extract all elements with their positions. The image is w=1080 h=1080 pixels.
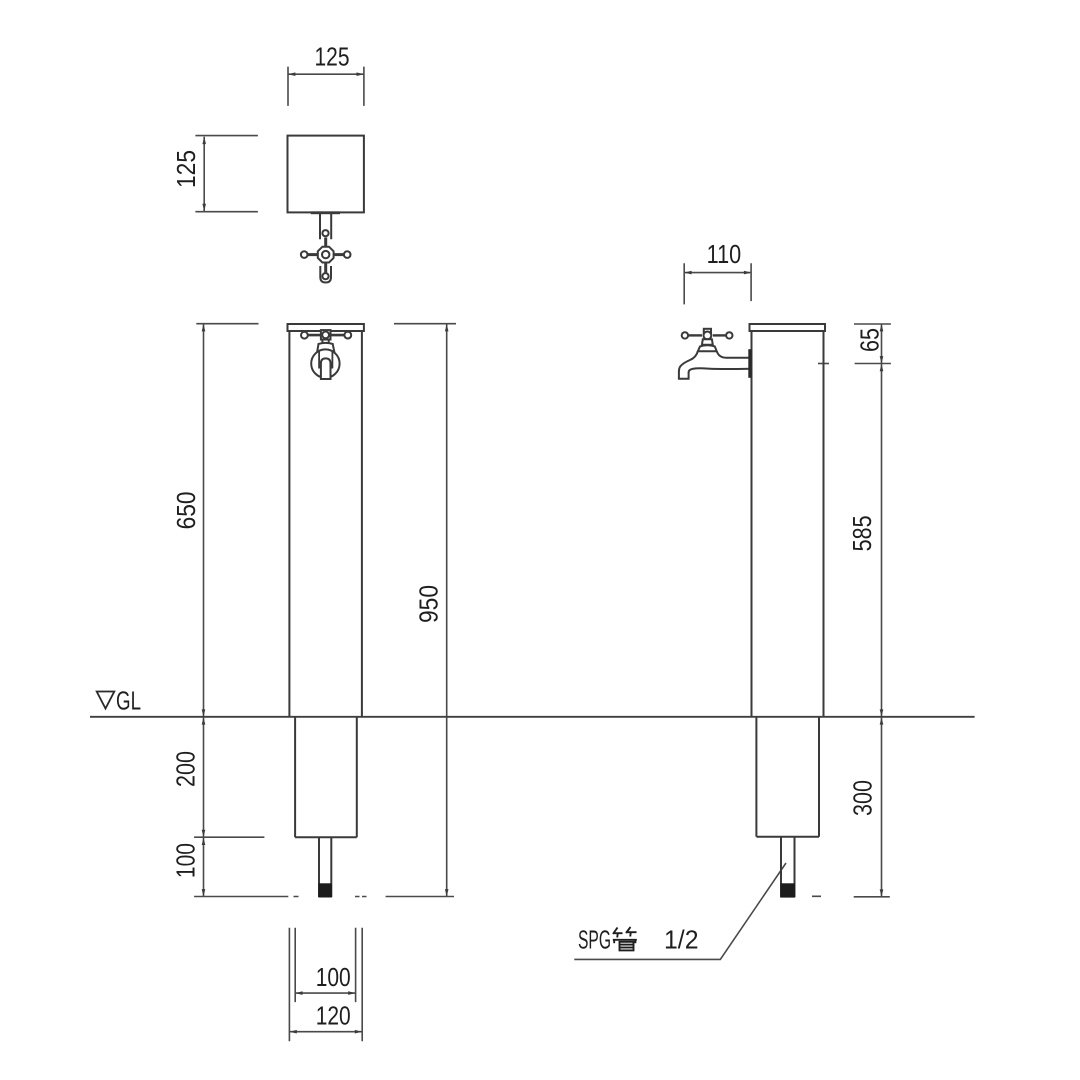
svg-text:950: 950 <box>414 585 444 623</box>
svg-text:GL: GL <box>116 686 141 716</box>
svg-text:65: 65 <box>855 328 885 352</box>
svg-text:110: 110 <box>707 239 742 269</box>
svg-text:1/2: 1/2 <box>664 925 699 955</box>
svg-text:200: 200 <box>171 751 201 787</box>
svg-text:SPG: SPG <box>578 925 611 955</box>
svg-text:585: 585 <box>847 515 877 551</box>
svg-text:125: 125 <box>315 41 350 71</box>
svg-text:300: 300 <box>848 780 878 816</box>
svg-text:650: 650 <box>171 491 201 529</box>
svg-text:100: 100 <box>171 843 201 878</box>
svg-text:125: 125 <box>171 150 201 188</box>
svg-text:120: 120 <box>316 1001 351 1031</box>
svg-text:100: 100 <box>316 962 351 992</box>
